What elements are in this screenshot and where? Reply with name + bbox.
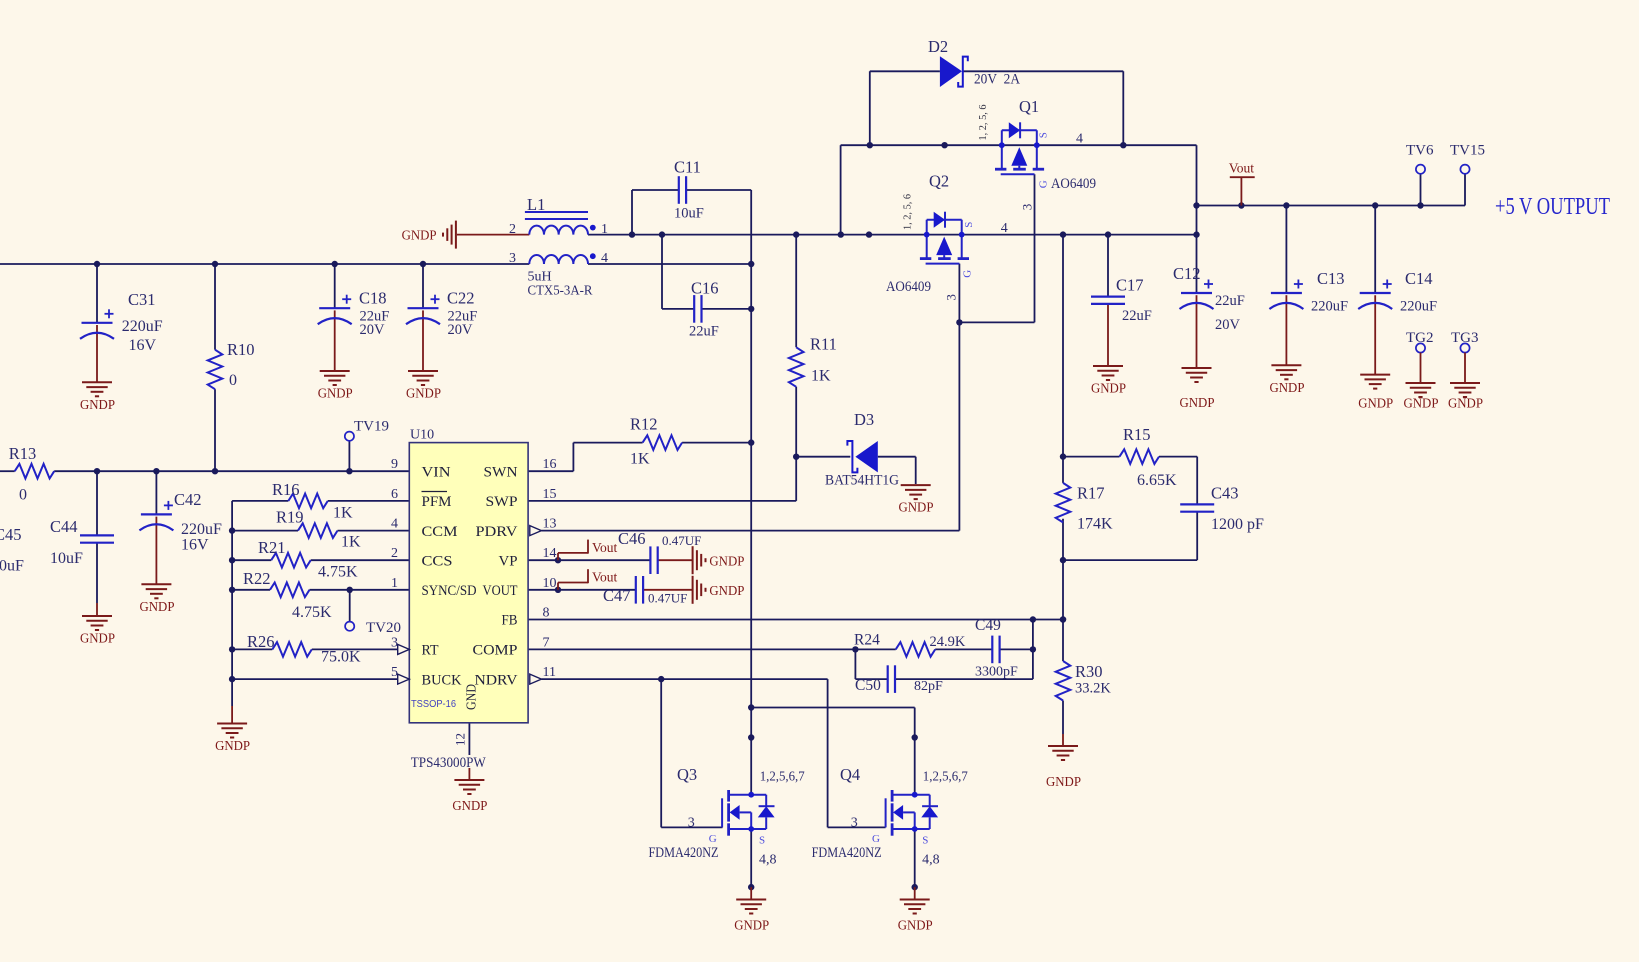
svg-text:GNDP: GNDP — [1091, 381, 1126, 396]
svg-text:C12: C12 — [1173, 264, 1201, 283]
svg-text:GNDP: GNDP — [1046, 774, 1081, 789]
svg-text:1: 1 — [391, 576, 398, 591]
svg-text:4: 4 — [601, 251, 608, 266]
svg-text:C16: C16 — [691, 279, 719, 298]
svg-text:4,8: 4,8 — [759, 853, 777, 868]
transistor Q4 — [886, 790, 939, 836]
capacitor C43 — [1180, 484, 1264, 534]
svg-text:COMP: COMP — [473, 643, 518, 659]
svg-text:220uF: 220uF — [1311, 299, 1348, 315]
svg-text:0: 0 — [19, 487, 27, 504]
ground Q4 — [898, 900, 933, 933]
resistor R30 — [1056, 661, 1112, 701]
svg-text:GNDP: GNDP — [1358, 396, 1393, 411]
svg-text:GNDP: GNDP — [80, 397, 115, 412]
svg-text:1K: 1K — [341, 534, 361, 551]
svg-text:1K: 1K — [811, 368, 831, 385]
resistor R19 — [276, 508, 361, 551]
svg-text:TV20: TV20 — [366, 620, 401, 636]
svg-text:4,8: 4,8 — [922, 853, 940, 868]
svg-text:22uF: 22uF — [689, 324, 719, 340]
wire C44 branch — [96, 471, 98, 616]
inductor L1 — [509, 195, 608, 299]
svg-text:20V: 20V — [1215, 317, 1241, 333]
svg-text:C22: C22 — [447, 289, 475, 308]
svg-text:G: G — [709, 833, 717, 845]
svg-text:75.0K: 75.0K — [321, 649, 361, 666]
wire SWP pin 15 — [528, 457, 796, 501]
svg-text:2: 2 — [509, 222, 516, 237]
svg-text:PFM: PFM — [422, 494, 452, 510]
svg-text:C47: C47 — [603, 586, 631, 605]
wire C31 branch — [96, 264, 98, 382]
svg-text:AO6409: AO6409 — [886, 279, 931, 295]
wire C17 branch — [1107, 235, 1109, 366]
wire R26 row pin 3 — [232, 648, 400, 650]
svg-text:PDRV: PDRV — [476, 524, 518, 540]
svg-text:220uF: 220uF — [181, 521, 222, 538]
svg-text:TPS43000PW: TPS43000PW — [411, 755, 487, 771]
svg-text:4: 4 — [1076, 132, 1083, 147]
svg-text:1,2,5,6,7: 1,2,5,6,7 — [923, 770, 968, 785]
capacitor C17 — [1091, 276, 1152, 325]
label Vout flag on +5V rail — [1229, 161, 1255, 206]
U10 pin arrows — [398, 526, 542, 685]
ground C18 — [318, 371, 353, 401]
svg-text:3: 3 — [509, 251, 516, 266]
ground C13 — [1270, 365, 1305, 395]
svg-text:BUCK: BUCK — [422, 672, 462, 688]
capacitor C31 — [80, 290, 163, 354]
svg-text:R21: R21 — [258, 538, 286, 557]
svg-text:GNDP: GNDP — [406, 386, 441, 401]
capacitor C16 — [689, 279, 719, 340]
svg-text:G: G — [1037, 180, 1049, 188]
svg-text:GNDP: GNDP — [709, 583, 744, 598]
ground Q3 — [734, 900, 769, 933]
svg-text:R13: R13 — [9, 444, 37, 463]
wire COMP pin 7 — [528, 646, 1036, 652]
resistor R15 — [1120, 425, 1178, 489]
svg-text:C17: C17 — [1116, 276, 1144, 295]
svg-text:6: 6 — [391, 487, 398, 502]
capacitor C47 — [603, 576, 687, 606]
svg-text:TV15: TV15 — [1450, 143, 1485, 159]
svg-text:NDRV: NDRV — [475, 672, 518, 688]
svg-text:22uF: 22uF — [1215, 293, 1245, 309]
svg-text:GND: GND — [465, 684, 480, 710]
svg-text:4.75K: 4.75K — [292, 604, 332, 621]
wire VP pin 14 — [528, 557, 693, 563]
wire Q3/Q4 drain branch — [751, 708, 918, 795]
svg-text:GNDP: GNDP — [1404, 396, 1439, 411]
wire +5V output rail — [1197, 174, 1466, 209]
wire C18 branch — [334, 264, 336, 371]
wire SWN rail (L1 pin 1 row) — [457, 231, 1200, 237]
diode D2 — [928, 37, 1020, 88]
wire D2 top loop — [870, 71, 1124, 145]
ground C31 — [80, 382, 115, 412]
svg-text:D2: D2 — [928, 37, 948, 56]
wire R21 row pin 2 — [232, 559, 409, 561]
svg-text:R16: R16 — [272, 480, 300, 499]
ground C42 — [140, 584, 175, 614]
label Q1 — [977, 97, 1096, 210]
testpoint TV20 — [345, 620, 401, 636]
svg-text:1, 2, 5, 6: 1, 2, 5, 6 — [977, 104, 989, 140]
wire C14 branch — [1374, 206, 1376, 375]
svg-text:Vout: Vout — [592, 570, 618, 585]
wire R10 branch — [214, 264, 216, 471]
U10 pin names — [411, 464, 518, 710]
svg-text:C44: C44 — [50, 517, 78, 536]
wire R16 row pin 6 — [232, 500, 409, 502]
wire C50 loop — [855, 620, 1033, 680]
resistor R26 — [247, 632, 361, 666]
ground C44 — [80, 616, 115, 646]
wire R19 row pin 4 — [232, 530, 409, 532]
svg-text:U10: U10 — [410, 428, 434, 443]
capacitor C46 — [618, 529, 701, 574]
svg-text:1200 pF: 1200 pF — [1211, 516, 1264, 533]
svg-text:16V: 16V — [181, 537, 209, 554]
svg-text:TV19: TV19 — [354, 419, 389, 435]
svg-text:R26: R26 — [247, 632, 275, 651]
label Vout flag VP — [557, 553, 559, 560]
svg-text:RT: RT — [422, 643, 439, 659]
resistor R13 — [9, 444, 54, 504]
svg-text:R30: R30 — [1075, 662, 1103, 681]
label Vout flag VOUT — [557, 583, 559, 590]
wire C12 branch — [1196, 235, 1198, 368]
wire Q3 source to ground — [748, 829, 754, 900]
testpoint TG2 — [1406, 330, 1434, 383]
svg-text:1, 2, 5, 6: 1, 2, 5, 6 — [902, 194, 914, 230]
svg-text:3: 3 — [851, 816, 858, 831]
svg-text:220uF: 220uF — [1400, 299, 1437, 315]
svg-text:+5 V OUTPUT: +5 V OUTPUT — [1495, 194, 1610, 220]
svg-text:GNDP: GNDP — [1180, 395, 1215, 410]
capacitor C45 (edge, partially off-canvas) — [0, 525, 24, 575]
svg-text:R11: R11 — [810, 335, 837, 354]
svg-text:G: G — [961, 270, 973, 278]
svg-text:220uF: 220uF — [122, 318, 163, 335]
wire VOUT pin 10 — [528, 587, 693, 593]
svg-text:Vout: Vout — [592, 540, 618, 555]
svg-text:3: 3 — [391, 635, 398, 650]
resistor R16 — [272, 480, 353, 522]
label Q3 — [649, 765, 805, 868]
svg-text:20V 2A: 20V 2A — [974, 72, 1020, 88]
wire R11 branch — [793, 235, 916, 484]
svg-text:C14: C14 — [1405, 269, 1433, 288]
svg-text:VP: VP — [499, 553, 518, 569]
ground C47 — [693, 576, 745, 604]
U10 TPS43000PW controller — [409, 428, 528, 723]
svg-text:0.47UF: 0.47UF — [648, 591, 687, 606]
svg-text:SWP: SWP — [486, 494, 518, 510]
label Q2 — [886, 172, 1008, 301]
ground C14 — [1358, 375, 1393, 411]
svg-text:CCM: CCM — [422, 524, 458, 540]
resistor R17 — [1056, 483, 1113, 533]
wire R22 row pin 1 — [232, 587, 409, 593]
svg-text:C45: C45 — [0, 525, 22, 544]
wire SWP vertical (x=751) — [748, 190, 754, 795]
svg-text:2: 2 — [391, 546, 398, 561]
svg-text:CCS: CCS — [422, 553, 453, 569]
wire R15 C43 loop — [1063, 457, 1197, 560]
svg-text:Q3: Q3 — [677, 765, 697, 784]
svg-text:22uF: 22uF — [1122, 308, 1152, 324]
svg-text:0.47UF: 0.47UF — [662, 533, 701, 548]
transistor Q2 — [920, 212, 969, 264]
svg-text:20V: 20V — [360, 322, 386, 338]
svg-text:VOUT: VOUT — [483, 583, 518, 599]
ground resistor network — [215, 724, 250, 754]
svg-text:GNDP: GNDP — [140, 599, 175, 614]
wire C11 loop — [632, 190, 751, 235]
svg-text:4: 4 — [1001, 221, 1008, 236]
svg-text:10uF: 10uF — [674, 206, 704, 222]
svg-text:C18: C18 — [359, 289, 387, 308]
svg-text:S: S — [759, 835, 765, 847]
wire FB divider vertical (R17/R30) — [1060, 235, 1066, 746]
wire C13 branch — [1285, 206, 1287, 366]
testpoint TG3 — [1451, 330, 1479, 383]
svg-text:11: 11 — [543, 665, 556, 680]
svg-text:R22: R22 — [243, 569, 271, 588]
svg-text:Q1: Q1 — [1019, 97, 1039, 116]
svg-text:TG2: TG2 — [1406, 330, 1434, 346]
wire C42 branch — [155, 471, 157, 584]
svg-text:CTX5-3A-R: CTX5-3A-R — [528, 284, 594, 299]
capacitor C14 — [1358, 269, 1437, 315]
svg-text:1K: 1K — [630, 451, 650, 468]
ground C17 — [1091, 366, 1126, 396]
wire FB pin 8 — [528, 616, 1066, 622]
svg-text:1K: 1K — [333, 505, 353, 522]
svg-text:SYNC/SD: SYNC/SD — [422, 583, 477, 599]
capacitor C18 — [318, 289, 390, 339]
svg-text:G: G — [872, 833, 880, 845]
svg-text:D3: D3 — [854, 410, 874, 429]
svg-text:16V: 16V — [129, 337, 157, 354]
svg-text:20V: 20V — [448, 322, 474, 338]
testpoint TV19 — [345, 419, 389, 441]
svg-text:8: 8 — [543, 606, 550, 621]
svg-text:3: 3 — [688, 816, 695, 831]
diode D3 — [825, 410, 899, 489]
capacitor C11 — [674, 158, 704, 222]
wire NDRV pin 11 to gates — [541, 676, 885, 828]
svg-text:R17: R17 — [1077, 484, 1105, 503]
svg-text:24.9K: 24.9K — [930, 634, 966, 650]
resistor R21 — [258, 538, 358, 581]
wire Q4 source to ground — [912, 829, 918, 900]
wire BUCK row pin 5 — [232, 678, 400, 680]
svg-text:BAT54HT1G: BAT54HT1G — [825, 473, 899, 489]
svg-text:R10: R10 — [227, 340, 255, 359]
svg-text:15: 15 — [543, 487, 557, 502]
svg-text:Q2: Q2 — [929, 172, 949, 191]
resistor R12 — [630, 415, 682, 468]
testpoint TV15 — [1450, 143, 1485, 174]
wire C16 loop — [662, 235, 751, 309]
ground GNDP at L1 pin 2 — [402, 221, 456, 249]
svg-text:GNDP: GNDP — [80, 631, 115, 646]
transistor Q1 — [995, 122, 1044, 174]
svg-text:3300pF: 3300pF — [975, 665, 1018, 680]
svg-text:C11: C11 — [674, 158, 701, 177]
wire PDRV pin 13 to gates — [541, 174, 1034, 530]
wire resistor-network common vertical — [229, 501, 235, 724]
svg-text:C49: C49 — [975, 617, 1001, 634]
svg-text:C42: C42 — [174, 490, 202, 509]
wire SWN pin 16 to R12 — [528, 443, 751, 472]
svg-text:R19: R19 — [276, 508, 304, 527]
svg-text:5uH: 5uH — [528, 270, 552, 285]
svg-text:GNDP: GNDP — [899, 500, 934, 515]
svg-text:9: 9 — [391, 457, 398, 472]
svg-text:6.65K: 6.65K — [1137, 472, 1177, 489]
svg-text:14: 14 — [543, 546, 557, 561]
svg-text:1,2,5,6,7: 1,2,5,6,7 — [760, 770, 805, 785]
svg-text:33.2K: 33.2K — [1075, 681, 1111, 697]
ground R30 — [1046, 746, 1081, 789]
svg-text:C13: C13 — [1317, 269, 1345, 288]
ground C46 — [693, 546, 745, 574]
svg-text:AO6409: AO6409 — [1051, 176, 1096, 192]
svg-text:C50: C50 — [855, 677, 881, 694]
ground U10 — [452, 780, 487, 813]
capacitor C44 — [50, 517, 114, 567]
svg-text:Q4: Q4 — [840, 765, 860, 784]
svg-text:3: 3 — [943, 294, 958, 301]
capacitor C22 — [406, 289, 477, 339]
svg-text:FDMA420NZ: FDMA420NZ — [812, 845, 882, 861]
capacitor C13 — [1269, 269, 1348, 315]
label Q4 — [812, 765, 968, 868]
svg-text:16: 16 — [543, 457, 557, 472]
svg-text:GNDP: GNDP — [452, 798, 487, 813]
svg-text:GNDP: GNDP — [1270, 380, 1305, 395]
U10 pin numbers — [391, 457, 557, 746]
svg-text:R24: R24 — [854, 632, 880, 649]
svg-text:10: 10 — [543, 576, 557, 591]
wire Q1 drain row — [841, 142, 1200, 235]
wire VIN input top rail — [0, 261, 754, 267]
svg-text:13: 13 — [543, 517, 557, 532]
ground C12 — [1180, 368, 1215, 410]
wire C22 branch — [422, 264, 424, 371]
resistor R11 — [789, 335, 837, 387]
svg-text:FB: FB — [502, 613, 518, 629]
svg-text:VIN: VIN — [422, 464, 451, 480]
svg-text:174K: 174K — [1077, 516, 1113, 533]
ground D3 — [899, 485, 934, 514]
svg-text:12: 12 — [452, 733, 467, 746]
svg-text:R15: R15 — [1123, 425, 1151, 444]
capacitor C49 — [975, 617, 1018, 680]
wire VIN rail (U10 pin 9 row) — [0, 468, 409, 474]
svg-text:10uF: 10uF — [0, 558, 24, 575]
svg-text:TG3: TG3 — [1451, 330, 1479, 346]
testpoint TV6 — [1406, 143, 1434, 174]
ground C22 — [406, 371, 441, 401]
resistor R22 — [243, 569, 332, 621]
svg-text:GNDP: GNDP — [402, 228, 437, 243]
svg-text:82pF: 82pF — [914, 679, 943, 694]
svg-text:10uF: 10uF — [50, 550, 83, 567]
svg-text:7: 7 — [543, 635, 550, 650]
svg-text:S: S — [922, 835, 928, 847]
svg-text:SWN: SWN — [484, 464, 518, 480]
svg-text:0: 0 — [229, 372, 237, 389]
wire TV20 stub — [349, 590, 351, 622]
svg-text:C46: C46 — [618, 529, 646, 548]
svg-text:TV6: TV6 — [1406, 143, 1434, 159]
svg-text:GNDP: GNDP — [898, 918, 933, 933]
ground TG3 — [1448, 383, 1483, 411]
svg-text:C43: C43 — [1211, 484, 1239, 503]
capacitor C42 — [139, 490, 222, 554]
transistor Q3 — [722, 790, 775, 836]
svg-text:GNDP: GNDP — [734, 918, 769, 933]
svg-text:3: 3 — [1020, 204, 1035, 211]
svg-text:GNDP: GNDP — [1448, 396, 1483, 411]
svg-text:Vout: Vout — [1229, 161, 1255, 176]
wire TV19 stub — [348, 441, 350, 472]
svg-text:S: S — [1037, 132, 1049, 138]
svg-text:GNDP: GNDP — [215, 738, 250, 753]
svg-text:FDMA420NZ: FDMA420NZ — [649, 845, 719, 861]
svg-text:4.75K: 4.75K — [318, 564, 358, 581]
resistor R10 — [208, 340, 255, 389]
capacitor C50 — [855, 665, 943, 694]
svg-text:1: 1 — [601, 222, 608, 237]
svg-text:S: S — [963, 222, 975, 228]
ground TG2 — [1404, 383, 1439, 411]
svg-text:R12: R12 — [630, 415, 658, 434]
wire U10 GND pin 12 — [468, 723, 470, 780]
svg-text:4: 4 — [391, 517, 398, 532]
svg-text:TSSOP-16: TSSOP-16 — [411, 699, 456, 710]
resistor R24 — [854, 632, 966, 657]
svg-text:5: 5 — [391, 665, 398, 680]
svg-text:C31: C31 — [128, 290, 156, 309]
svg-text:GNDP: GNDP — [318, 386, 353, 401]
svg-text:GNDP: GNDP — [709, 554, 744, 569]
capacitor C12 — [1173, 264, 1245, 333]
